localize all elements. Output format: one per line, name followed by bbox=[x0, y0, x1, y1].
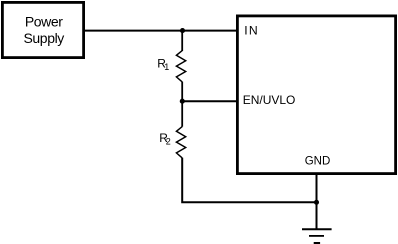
power supply block bbox=[2, 2, 83, 57]
svg-text:1: 1 bbox=[164, 62, 169, 72]
svg-text:GND: GND bbox=[305, 156, 331, 168]
ground symbol bbox=[302, 228, 332, 230]
resistor R1 bbox=[176, 51, 185, 82]
svg-text:IN: IN bbox=[244, 23, 259, 37]
wire: GND pin down to ground bbox=[316, 174, 318, 230]
wire: power supply to IN bbox=[84, 30, 239, 32]
wire: junction to EN/UVLO pin bbox=[182, 100, 238, 102]
node: junction dot on IN wire bbox=[180, 28, 185, 33]
resistor R2 bbox=[176, 127, 185, 158]
node: junction dot on ground net bbox=[314, 200, 319, 205]
wire: junction down to R1 bbox=[181, 31, 183, 51]
wire: junction down to R2 bbox=[181, 101, 183, 127]
svg-text:2: 2 bbox=[166, 137, 171, 147]
svg-text:Power: Power bbox=[25, 13, 63, 29]
svg-text:Supply: Supply bbox=[23, 30, 64, 46]
svg-text:EN/UVLO: EN/UVLO bbox=[243, 93, 296, 107]
IC block U1 bbox=[237, 16, 395, 174]
wire: R2 down and right to ground net bbox=[182, 158, 316, 203]
wire: R1 to EN junction bbox=[181, 82, 183, 101]
node: junction dot at EN/UVLO bbox=[180, 99, 185, 104]
